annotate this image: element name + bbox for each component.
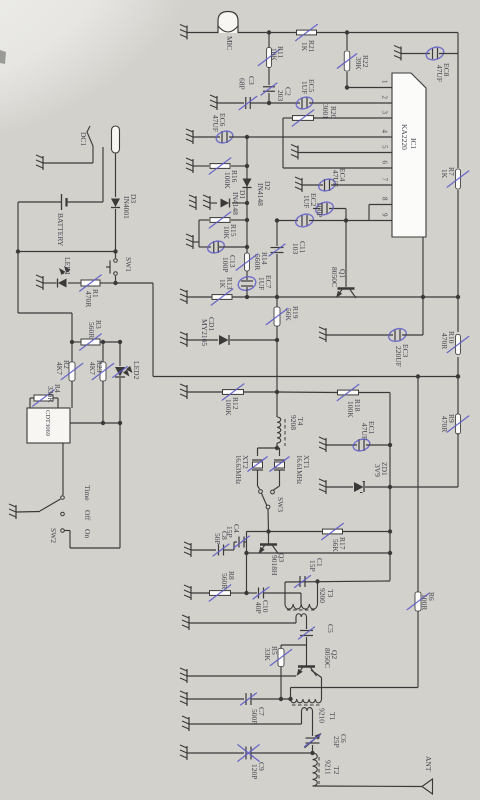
svg-text:25P: 25P [332,736,341,748]
svg-text:9018H: 9018H [270,555,279,576]
svg-text:KA2220: KA2220 [400,124,409,150]
svg-text:1K: 1K [300,42,309,52]
svg-text:C5: C5 [326,624,335,633]
svg-text:7: 7 [381,178,389,182]
svg-text:10K: 10K [222,226,231,240]
svg-text:LED1: LED1 [63,257,72,276]
svg-text:IN4001: IN4001 [122,196,131,219]
svg-text:100K: 100K [346,401,355,418]
svg-text:560R: 560R [220,573,229,589]
svg-text:5: 5 [381,145,389,149]
svg-text:1K: 1K [440,169,449,179]
svg-text:CDT3069: CDT3069 [44,410,51,436]
svg-text:39K: 39K [354,57,363,71]
svg-text:120P: 120P [250,764,259,779]
svg-text:2: 2 [381,96,389,100]
svg-text:16.63MHz: 16.63MHz [234,455,241,484]
svg-text:33K: 33K [263,648,272,662]
svg-text:XT2: XT2 [241,455,250,469]
svg-text:9210: 9210 [318,708,327,723]
svg-text:330K: 330K [46,386,55,403]
svg-text:3: 3 [381,111,389,115]
svg-text:470R: 470R [84,291,93,307]
svg-text:4K7: 4K7 [55,362,64,375]
svg-text:3001: 3001 [321,104,330,119]
svg-text:On: On [83,529,92,538]
svg-text:9211: 9211 [324,760,333,775]
svg-text:100K: 100K [224,399,233,416]
svg-text:1UF: 1UF [257,277,266,290]
svg-text:DC1: DC1 [79,132,88,146]
svg-text:IC1: IC1 [409,138,418,150]
svg-text:47UF: 47UF [435,65,444,82]
svg-text:T1: T1 [328,712,337,721]
svg-text:68P: 68P [238,78,247,90]
svg-text:SW1: SW1 [124,257,133,272]
svg-text:470R: 470R [440,333,449,349]
svg-text:56K: 56K [284,308,293,322]
svg-text:40P: 40P [254,602,263,614]
svg-text:C3: C3 [247,76,256,85]
svg-text:9208: 9208 [289,415,298,430]
svg-text:1UF: 1UF [302,195,311,208]
svg-text:1: 1 [381,80,389,84]
svg-text:6: 6 [381,161,389,165]
svg-text:8050C: 8050C [323,648,332,668]
svg-text:9200: 9200 [318,588,327,603]
svg-text:9: 9 [381,213,389,217]
svg-text:100K: 100K [223,172,232,189]
svg-text:8050C: 8050C [330,267,339,287]
svg-text:470R: 470R [440,416,449,432]
svg-text:100R: 100R [420,594,429,610]
svg-text:220UF: 220UF [394,346,403,367]
svg-text:1UF: 1UF [300,81,309,94]
svg-text:50P: 50P [213,533,222,545]
svg-text:100P: 100P [221,257,230,272]
svg-text:1K: 1K [218,279,227,289]
svg-text:10K: 10K [270,48,279,62]
svg-text:MY2105: MY2105 [200,319,209,346]
svg-text:3V9: 3V9 [373,464,382,477]
svg-text:560R: 560R [87,322,96,338]
svg-text:SW2: SW2 [49,528,58,543]
svg-text:LED2: LED2 [132,361,141,380]
svg-text:560R: 560R [253,254,262,270]
svg-text:ANT: ANT [424,756,433,772]
svg-text:MIC: MIC [225,36,234,50]
svg-text:4: 4 [381,130,389,134]
svg-text:Off: Off [83,510,92,521]
svg-text:47UF: 47UF [211,115,220,132]
svg-text:BATTERY: BATTERY [56,213,65,247]
svg-text:103: 103 [291,243,300,255]
svg-text:8: 8 [381,197,389,201]
svg-text:203: 203 [276,90,285,102]
svg-text:IN4148: IN4148 [231,192,240,215]
svg-text:500P: 500P [250,709,259,724]
svg-text:XT1: XT1 [302,455,311,469]
svg-text:SW3: SW3 [276,497,285,512]
svg-text:56K: 56K [331,539,340,553]
svg-text:16.61MHz: 16.61MHz [295,455,302,484]
svg-text:15P: 15P [308,560,317,572]
svg-text:Time: Time [83,485,92,501]
svg-text:4K7: 4K7 [88,362,97,375]
svg-text:IN4148: IN4148 [256,183,265,206]
svg-text:47UF: 47UF [331,170,340,187]
svg-text:47UF: 47UF [360,423,369,440]
